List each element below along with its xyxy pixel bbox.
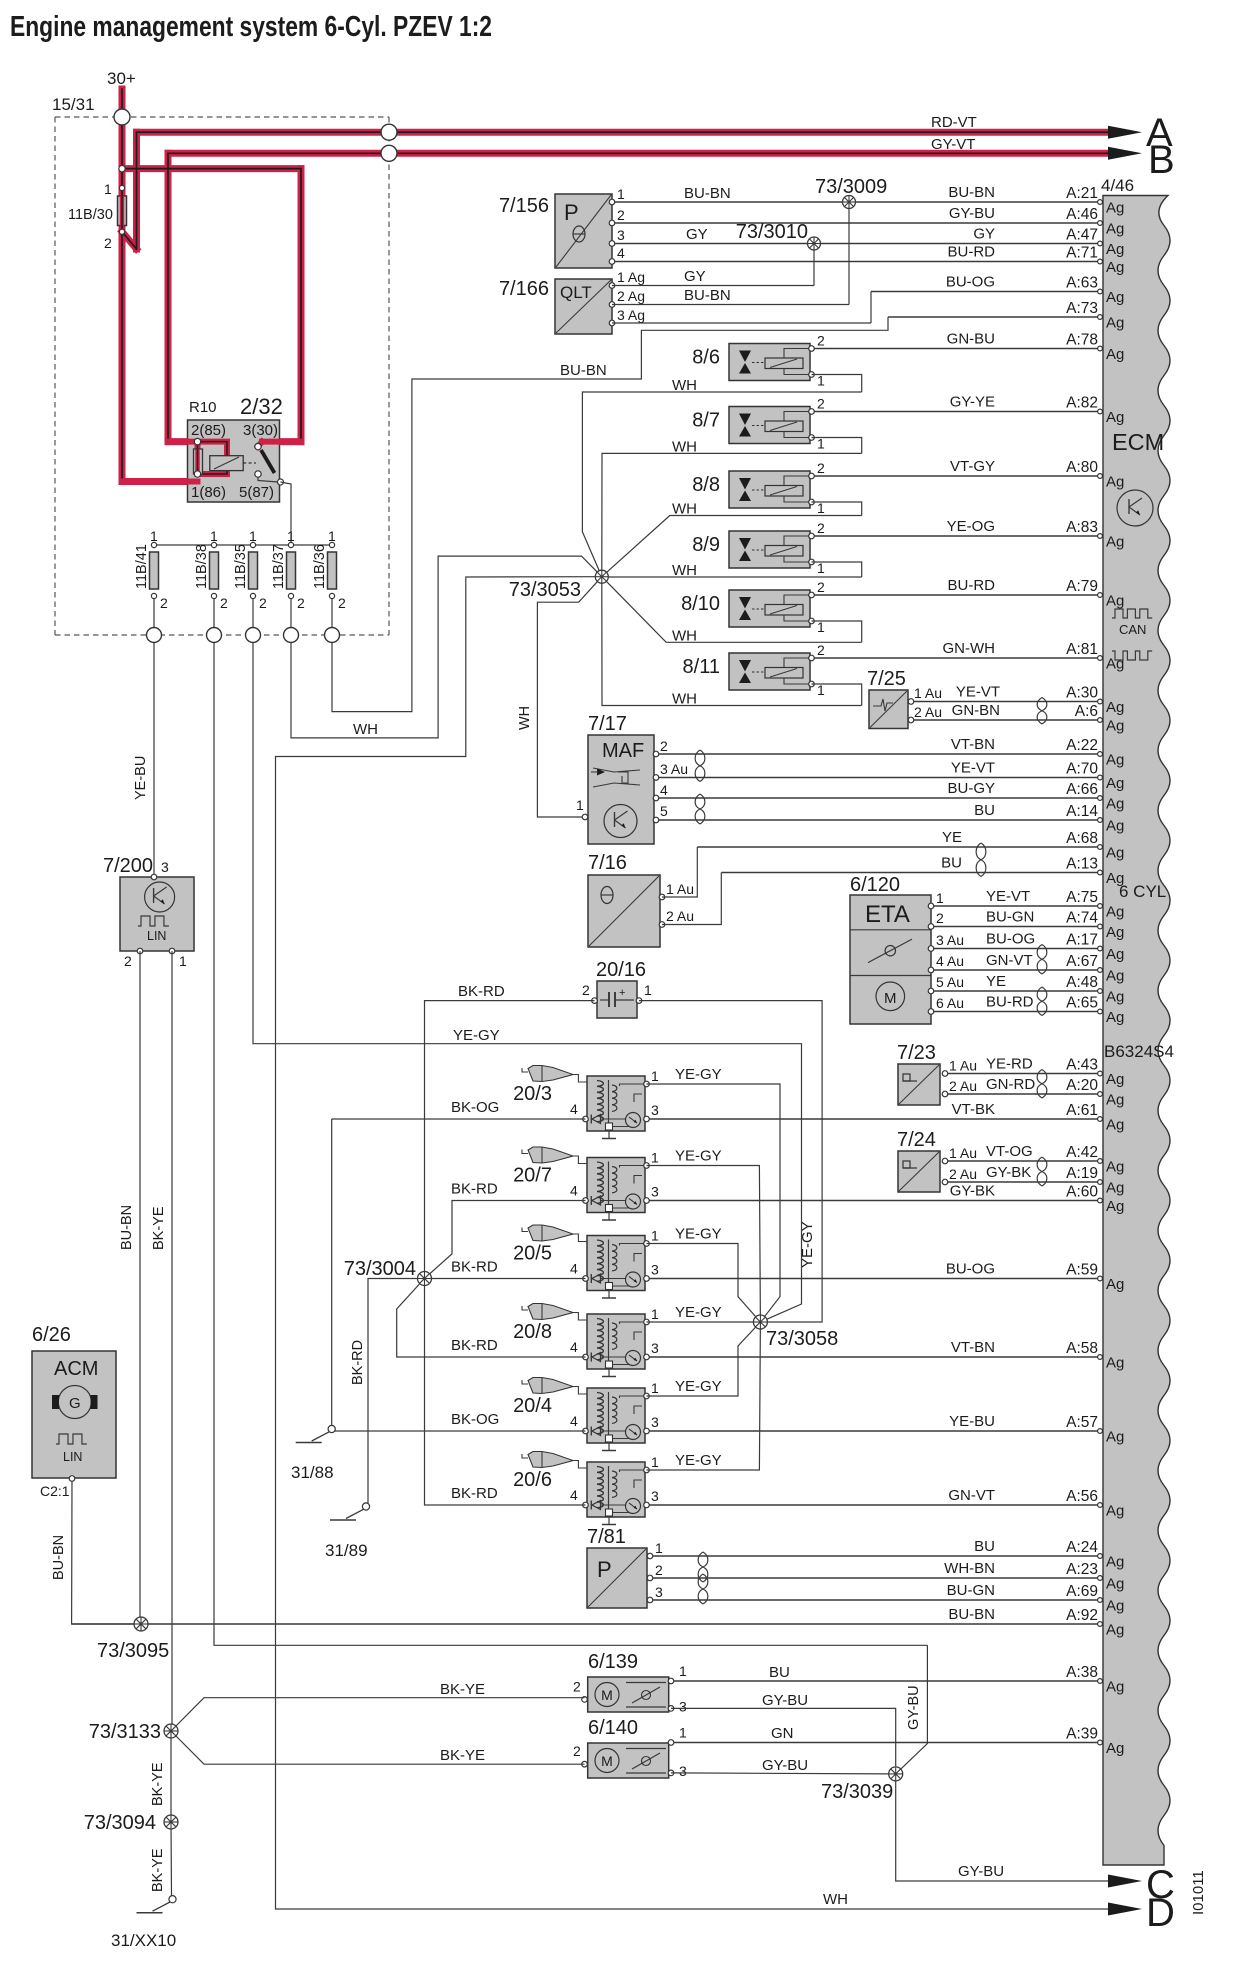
svg-text:A:60: A:60 xyxy=(1066,1184,1098,1201)
svg-text:BU-BN: BU-BN xyxy=(560,362,607,379)
wire BU-BN ACM to 73/3095 xyxy=(51,1481,141,1624)
svg-text:BK-YE: BK-YE xyxy=(440,1747,485,1764)
node junction on 30+ feed xyxy=(119,165,125,171)
svg-text:20/16: 20/16 xyxy=(596,959,646,981)
label 20/8 xyxy=(513,1321,552,1343)
wire WH 11B/37 feed to 73/3053 xyxy=(291,556,602,738)
wire YE-GY 20/5 pin1 xyxy=(647,1244,761,1323)
svg-text:BU: BU xyxy=(974,1538,995,1555)
svg-text:VT-OG: VT-OG xyxy=(986,1143,1033,1160)
svg-text:A:82: A:82 xyxy=(1066,395,1098,412)
svg-text:A:79: A:79 xyxy=(1066,578,1098,595)
wire A:75 YE-VT xyxy=(931,888,1124,921)
ignition coil 20/7 with spark plug xyxy=(522,1147,649,1220)
fuse 11B/35 xyxy=(233,528,267,627)
svg-text:BU-BN: BU-BN xyxy=(684,287,731,304)
wire A:69 BU-GN xyxy=(650,1582,1124,1615)
svg-text:A:80: A:80 xyxy=(1066,459,1098,476)
label 7/16 xyxy=(588,852,627,874)
relay R10 2/32 xyxy=(122,420,301,502)
svg-text:Ag: Ag xyxy=(1106,946,1124,963)
svg-text:2: 2 xyxy=(297,595,305,611)
node circle below fuse 11B/37 xyxy=(284,628,299,643)
label WH 8/7 xyxy=(672,438,697,455)
ground 31/89 xyxy=(330,1503,370,1520)
svg-text:A:23: A:23 xyxy=(1066,1561,1098,1578)
wire A:13 BU xyxy=(721,855,1124,888)
node circle bus B at x389 xyxy=(381,145,397,161)
wire A:38 xyxy=(671,1664,1124,1696)
label pin1 7/156 xyxy=(617,186,625,202)
svg-text:30+: 30+ xyxy=(107,69,136,88)
label pin1 7/17 xyxy=(576,797,584,813)
svg-text:73/3009: 73/3009 xyxy=(815,176,887,198)
wire WH 8/8 to junction xyxy=(602,516,862,577)
label BK-RD 20/5 xyxy=(451,1259,498,1276)
label pin1 Au 7/16 xyxy=(666,881,694,897)
label 31/89 xyxy=(325,1541,368,1560)
wire WH junction to MAF pin1 xyxy=(517,577,602,817)
svg-text:7/25: 7/25 xyxy=(867,668,906,690)
fuse 11B/36 xyxy=(312,528,346,627)
svg-text:73/3010: 73/3010 xyxy=(736,221,808,243)
svg-text:A:38: A:38 xyxy=(1066,1664,1098,1681)
svg-text:YE-GY: YE-GY xyxy=(675,1066,722,1083)
svg-text:6/26: 6/26 xyxy=(32,1324,71,1346)
label pin2 7/81 xyxy=(655,1562,663,1578)
label BU-BN xyxy=(560,362,607,379)
title text xyxy=(10,11,492,43)
svg-text:ACM: ACM xyxy=(54,1358,98,1380)
wire A:83 YE-OG xyxy=(812,518,1124,551)
svg-text:3: 3 xyxy=(651,1184,659,1200)
label GY 7/156 pin3 xyxy=(686,226,708,243)
svg-text:Ag: Ag xyxy=(1106,1622,1124,1639)
svg-text:M: M xyxy=(601,1687,613,1703)
label pin4 20/3 xyxy=(570,1101,578,1117)
label pin1 7/81 xyxy=(655,1540,663,1556)
svg-text:VT-BN: VT-BN xyxy=(951,736,995,753)
svg-text:Ag: Ag xyxy=(1106,656,1124,673)
svg-text:A:78: A:78 xyxy=(1066,332,1098,349)
wire A:67 GN-VT xyxy=(931,952,1124,985)
label pin3 Au 6/120 xyxy=(936,932,964,948)
svg-text:7/166: 7/166 xyxy=(499,278,549,300)
label 7/23 xyxy=(897,1042,936,1064)
wire WH 8/11 to junction xyxy=(602,577,862,706)
svg-text:BU-GY: BU-GY xyxy=(947,780,995,797)
wire A:47 GY xyxy=(612,226,1124,259)
svg-text:1: 1 xyxy=(651,1306,659,1322)
svg-text:4: 4 xyxy=(570,1339,578,1355)
junction 73/3039 xyxy=(889,1767,903,1781)
label pin1 Au 7/24 xyxy=(949,1145,977,1161)
svg-text:4: 4 xyxy=(660,782,668,798)
label pin3 20/5 xyxy=(651,1262,659,1278)
svg-text:3: 3 xyxy=(651,1488,659,1504)
svg-text:8/8: 8/8 xyxy=(692,474,720,496)
svg-text:20/7: 20/7 xyxy=(513,1165,552,1187)
svg-text:WH-BN: WH-BN xyxy=(944,1560,995,1577)
label pin4 20/6 xyxy=(570,1487,578,1503)
svg-text:4: 4 xyxy=(570,1487,578,1503)
svg-text:3: 3 xyxy=(651,1340,659,1356)
svg-text:73/3094: 73/3094 xyxy=(84,1812,156,1834)
svg-text:GY: GY xyxy=(973,226,995,243)
svg-text:3(30): 3(30) xyxy=(243,422,278,439)
wire YE 7/16 pin1 to A:68 xyxy=(662,847,697,897)
component 6/139 motor xyxy=(582,1677,674,1712)
injector 8/11 xyxy=(729,642,825,698)
svg-text:A:75: A:75 xyxy=(1066,889,1098,906)
wire fuse supply bus from relay 5(87) xyxy=(154,482,332,545)
svg-text:A:21: A:21 xyxy=(1066,185,1098,202)
label pin4 20/5 xyxy=(570,1261,578,1277)
svg-text:2: 2 xyxy=(817,333,825,349)
wire BK-RD 20/16 pin2 to 73/3004 xyxy=(425,1001,595,1279)
svg-text:BU-BN: BU-BN xyxy=(119,1205,135,1250)
injector 8/9 xyxy=(729,520,825,576)
wire BK-OG 20/4 to ground 31/88 xyxy=(335,1430,586,1432)
svg-text:11B/30: 11B/30 xyxy=(68,207,113,223)
node circle 30+ on dashed border xyxy=(114,109,130,125)
svg-text:2: 2 xyxy=(817,460,825,476)
svg-text:1 Au: 1 Au xyxy=(914,685,942,701)
label GY-VT xyxy=(931,136,975,153)
svg-text:A:14: A:14 xyxy=(1066,803,1098,820)
svg-text:Ag: Ag xyxy=(1106,1009,1124,1026)
svg-text:4: 4 xyxy=(570,1101,578,1117)
svg-text:GY: GY xyxy=(684,268,706,285)
label pin4 Au 6/120 xyxy=(936,953,964,969)
svg-text:2: 2 xyxy=(660,738,668,754)
wire WH 8/6 to junction xyxy=(582,392,861,577)
component 7/25 xyxy=(869,690,914,729)
label pin3 20/6 xyxy=(651,1488,659,1504)
svg-text:5(87): 5(87) xyxy=(239,484,274,501)
svg-text:73/3133: 73/3133 xyxy=(89,1721,161,1743)
component 6/120 ETA xyxy=(850,895,934,1024)
svg-text:1: 1 xyxy=(179,953,187,969)
svg-text:YE-GY: YE-GY xyxy=(675,1452,722,1469)
label pin1 Ag 7/166 xyxy=(617,269,645,285)
svg-text:YE-GY: YE-GY xyxy=(675,1378,722,1395)
label pin4 7/156 xyxy=(617,245,625,261)
label pin2 Au 7/16 xyxy=(666,908,694,924)
ECM CAN symbol xyxy=(1112,609,1152,660)
label 6/120 xyxy=(850,874,900,896)
component 7/200 xyxy=(120,874,194,954)
arrow C xyxy=(1108,1863,1175,1907)
wire A:30 YE-VT xyxy=(911,684,1124,717)
label pin1 20/8 xyxy=(651,1306,659,1322)
svg-text:BK-RD: BK-RD xyxy=(451,1181,498,1198)
svg-text:BU-GN: BU-GN xyxy=(947,1582,995,1599)
svg-text:A:61: A:61 xyxy=(1066,1102,1098,1119)
svg-text:BU-BN: BU-BN xyxy=(948,1606,995,1623)
wire A:80 VT-GY xyxy=(812,458,1124,491)
svg-text:Ag: Ag xyxy=(1106,534,1124,551)
svg-text:2: 2 xyxy=(817,520,825,536)
svg-text:GN-RD: GN-RD xyxy=(986,1076,1035,1093)
svg-text:A:83: A:83 xyxy=(1066,519,1098,536)
svg-text:B: B xyxy=(1148,138,1175,182)
label 6 CYL xyxy=(1119,882,1166,901)
svg-text:1: 1 xyxy=(210,528,218,544)
wire WH 8/11 pin1 xyxy=(812,684,862,706)
svg-text:A:74: A:74 xyxy=(1066,910,1098,927)
wire 73/3010 riser xyxy=(813,244,815,286)
wire A:70 YE-VT xyxy=(656,760,1124,793)
label 7/25 xyxy=(867,668,906,690)
svg-text:73/3058: 73/3058 xyxy=(766,1328,838,1350)
svg-text:A:70: A:70 xyxy=(1066,761,1098,778)
svg-text:2: 2 xyxy=(817,579,825,595)
twisted pair 7/81 1-2 xyxy=(698,1552,708,1582)
wire WH 8/6 pin1 xyxy=(812,375,862,393)
injector 8/6 xyxy=(729,333,825,389)
svg-text:YE-VT: YE-VT xyxy=(986,888,1030,905)
label 20/4 xyxy=(513,1395,552,1417)
svg-text:GY: GY xyxy=(686,226,708,243)
label pin3 20/4 xyxy=(651,1414,659,1430)
svg-text:BK-RD: BK-RD xyxy=(451,1337,498,1354)
label pin2 7/17 xyxy=(660,738,668,754)
svg-text:Ag: Ag xyxy=(1106,409,1124,426)
svg-text:4: 4 xyxy=(570,1183,578,1199)
svg-text:A:92: A:92 xyxy=(1066,1607,1098,1624)
svg-text:M: M xyxy=(601,1753,613,1769)
svg-text:Ag: Ag xyxy=(1106,1429,1124,1446)
svg-text:4 Au: 4 Au xyxy=(936,953,964,969)
svg-text:6/120: 6/120 xyxy=(850,874,900,896)
wire BU-BN QLT pin2 xyxy=(612,287,849,305)
label R10 xyxy=(189,399,217,416)
svg-text:Ag: Ag xyxy=(1106,968,1124,985)
label pin1 20/4 xyxy=(651,1380,659,1396)
svg-text:P: P xyxy=(597,1557,612,1582)
wire A:71 BU-RD xyxy=(612,244,1124,277)
svg-text:GN-BU: GN-BU xyxy=(947,331,995,348)
svg-text:BU-OG: BU-OG xyxy=(946,274,995,291)
svg-text:GY-BU: GY-BU xyxy=(958,1863,1004,1880)
fuse 11B/41 xyxy=(134,528,168,627)
label BU-BN 7/156 pin1 xyxy=(684,185,731,202)
svg-text:11B/36: 11B/36 xyxy=(312,544,328,589)
svg-text:GY-VT: GY-VT xyxy=(931,136,975,153)
svg-text:6/139: 6/139 xyxy=(588,1651,638,1673)
svg-text:Ag: Ag xyxy=(1106,924,1124,941)
svg-text:2(85): 2(85) xyxy=(191,422,226,439)
svg-text:BK-OG: BK-OG xyxy=(451,1099,499,1116)
label 8/7 xyxy=(692,410,720,432)
svg-text:2: 2 xyxy=(655,1562,663,1578)
svg-text:Ag: Ag xyxy=(1106,593,1124,610)
label WH 8/9 xyxy=(672,562,697,579)
label pin3 20/3 xyxy=(651,1102,659,1118)
svg-text:20/3: 20/3 xyxy=(513,1083,552,1105)
wire A:61 VT-BK xyxy=(648,1101,1124,1134)
svg-text:Ag: Ag xyxy=(1106,1740,1124,1757)
fuse 11B/30 xyxy=(68,181,127,251)
label 7/166 xyxy=(499,278,549,300)
svg-text:YE-VT: YE-VT xyxy=(956,684,1000,701)
ground 31/88 xyxy=(296,1425,336,1442)
label 7/24 xyxy=(897,1129,936,1151)
svg-text:A:59: A:59 xyxy=(1066,1262,1098,1279)
twisted pair 7/25 xyxy=(1037,698,1047,725)
wire A:23 WH-BN xyxy=(650,1560,1124,1593)
wire A:14 BU xyxy=(656,802,1124,835)
svg-text:2: 2 xyxy=(220,595,228,611)
label BK-OG 20/3 xyxy=(451,1099,499,1116)
label 8/10 xyxy=(681,593,720,615)
svg-text:GN-WH: GN-WH xyxy=(943,640,996,657)
label WH 8/6 xyxy=(672,377,697,394)
label B6324S4 xyxy=(1104,1042,1174,1061)
svg-text:A:71: A:71 xyxy=(1066,245,1098,262)
ignition coil 20/3 with spark plug xyxy=(522,1066,649,1139)
svg-text:7/24: 7/24 xyxy=(897,1129,936,1151)
label pin1 20/5 xyxy=(651,1228,659,1244)
label pin3 7/156 xyxy=(617,227,625,243)
wire GY-BU 73/3039 to arrow C xyxy=(896,1774,1108,1881)
wire A:63 BU-OG xyxy=(871,274,1124,307)
wire A:6 GN-BN xyxy=(911,702,1124,735)
wire BK-RD 73/3004 to ground 31/89 xyxy=(350,1279,425,1504)
svg-text:3: 3 xyxy=(617,227,625,243)
svg-text:3 Ag: 3 Ag xyxy=(617,307,645,323)
svg-text:A:19: A:19 xyxy=(1066,1165,1098,1182)
svg-text:QLT: QLT xyxy=(560,283,592,302)
svg-text:Ag: Ag xyxy=(1106,775,1124,792)
label BK-RD 20/8 xyxy=(451,1337,498,1354)
wire A:42 VT-OG xyxy=(945,1143,1124,1176)
svg-text:31/89: 31/89 xyxy=(325,1541,368,1560)
svg-text:YE: YE xyxy=(942,829,962,846)
wire A:81 GN-WH xyxy=(812,640,1124,673)
svg-text:1: 1 xyxy=(936,890,944,906)
svg-text:A:65: A:65 xyxy=(1066,995,1098,1012)
svg-text:Ag: Ag xyxy=(1106,1276,1124,1293)
svg-text:2: 2 xyxy=(124,953,132,969)
svg-text:VT-GY: VT-GY xyxy=(950,458,995,475)
svg-text:Ag: Ag xyxy=(1106,796,1124,813)
svg-text:BU-RD: BU-RD xyxy=(986,994,1034,1011)
component 20/16 capacitor xyxy=(592,981,642,1018)
svg-text:GY-BK: GY-BK xyxy=(950,1183,995,1200)
label pin2 6/120 xyxy=(936,910,944,926)
label RD-VT xyxy=(931,114,977,131)
label GN 6/140 pin1 xyxy=(771,1725,794,1742)
wire BK-RD 20/6 to 73/3004 xyxy=(425,1279,586,1506)
svg-text:A:69: A:69 xyxy=(1066,1583,1098,1600)
label pin4 20/4 xyxy=(570,1413,578,1429)
component 6/26 ACM xyxy=(32,1351,116,1481)
svg-text:2 Ag: 2 Ag xyxy=(617,288,645,304)
svg-text:31/XX10: 31/XX10 xyxy=(111,1931,176,1950)
svg-text:2: 2 xyxy=(817,396,825,412)
svg-text:A:20: A:20 xyxy=(1066,1077,1098,1094)
wire YE-GY 20/4 pin1 xyxy=(647,1322,761,1396)
wire A:66 BU-GY xyxy=(656,780,1124,813)
svg-text:Ag: Ag xyxy=(1106,241,1124,258)
label 2/32 xyxy=(240,394,283,419)
junction 73/3009 xyxy=(843,196,856,209)
wire A:82 GY-YE xyxy=(812,394,1124,427)
label 73/3094 xyxy=(84,1812,156,1834)
wire A:58 VT-BN xyxy=(648,1339,1124,1372)
wire A:78 GN-BU xyxy=(812,331,1124,364)
label C2:1 xyxy=(40,1483,70,1499)
svg-text:31/88: 31/88 xyxy=(291,1463,334,1482)
component 7/81 xyxy=(587,1548,653,1608)
svg-text:A:30: A:30 xyxy=(1066,685,1098,702)
wire 20/16 pin1 to 73/3058 xyxy=(639,1001,822,1322)
label pin5 7/17 xyxy=(660,803,668,819)
label 15/31 xyxy=(52,95,95,114)
label YE-GY 20/4 xyxy=(675,1378,722,1395)
svg-text:4: 4 xyxy=(617,245,625,261)
arrow B xyxy=(1108,138,1175,182)
wire A:46 GY-BU xyxy=(612,205,1124,238)
wire BK-YE 73/3133 down xyxy=(150,1731,171,1822)
wire A:79 BU-RD xyxy=(812,577,1124,610)
svg-text:Ag: Ag xyxy=(1106,346,1124,363)
svg-text:1: 1 xyxy=(679,1725,687,1741)
label 4/46 xyxy=(1101,176,1134,195)
label ECM xyxy=(1112,429,1164,455)
wire GY-BU 6/139 pin3 xyxy=(671,1692,896,1766)
arrow D xyxy=(1108,1891,1175,1935)
label 7/17 xyxy=(588,713,627,735)
svg-text:2: 2 xyxy=(936,910,944,926)
svg-text:Ag: Ag xyxy=(1106,1117,1124,1134)
label pin3 20/7 xyxy=(651,1184,659,1200)
label pin3 6/139 xyxy=(679,1698,687,1714)
svg-text:BU-BN: BU-BN xyxy=(684,185,731,202)
svg-text:11B/38: 11B/38 xyxy=(194,544,210,589)
svg-text:73/3053: 73/3053 xyxy=(509,579,581,601)
wire BU-BN 11B/36 loop to A:73 xyxy=(332,317,888,712)
svg-text:BU: BU xyxy=(769,1664,790,1681)
svg-text:Ag: Ag xyxy=(1106,259,1124,276)
label pin5 Au 6/120 xyxy=(936,974,964,990)
svg-text:3: 3 xyxy=(679,1763,687,1779)
svg-text:2 Au: 2 Au xyxy=(949,1166,977,1182)
wire BK-RD 20/8 to 73/3004 xyxy=(397,1279,586,1358)
svg-text:YE-VT: YE-VT xyxy=(951,760,995,777)
svg-text:A:66: A:66 xyxy=(1066,781,1098,798)
wire YE-GY 20/7 pin1 xyxy=(647,1166,761,1323)
component 7/16 xyxy=(588,875,665,947)
svg-text:2: 2 xyxy=(104,235,112,251)
junction 73/3053 xyxy=(595,570,608,583)
svg-text:4: 4 xyxy=(570,1413,578,1429)
svg-text:11B/37: 11B/37 xyxy=(271,544,287,589)
svg-text:7/17: 7/17 xyxy=(588,713,627,735)
fuse 11B/38 xyxy=(194,528,228,627)
label pin4 20/7 xyxy=(570,1183,578,1199)
svg-text:WH: WH xyxy=(823,1891,848,1908)
label YE-GY 20/3 xyxy=(675,1066,722,1083)
svg-text:BK-RD: BK-RD xyxy=(350,1340,366,1385)
label 20/7 xyxy=(513,1165,552,1187)
svg-text:15/31: 15/31 xyxy=(52,95,95,114)
label YE-GY 20/7 xyxy=(675,1148,722,1165)
svg-text:Ag: Ag xyxy=(1106,718,1124,735)
svg-text:6 Au: 6 Au xyxy=(936,995,964,1011)
